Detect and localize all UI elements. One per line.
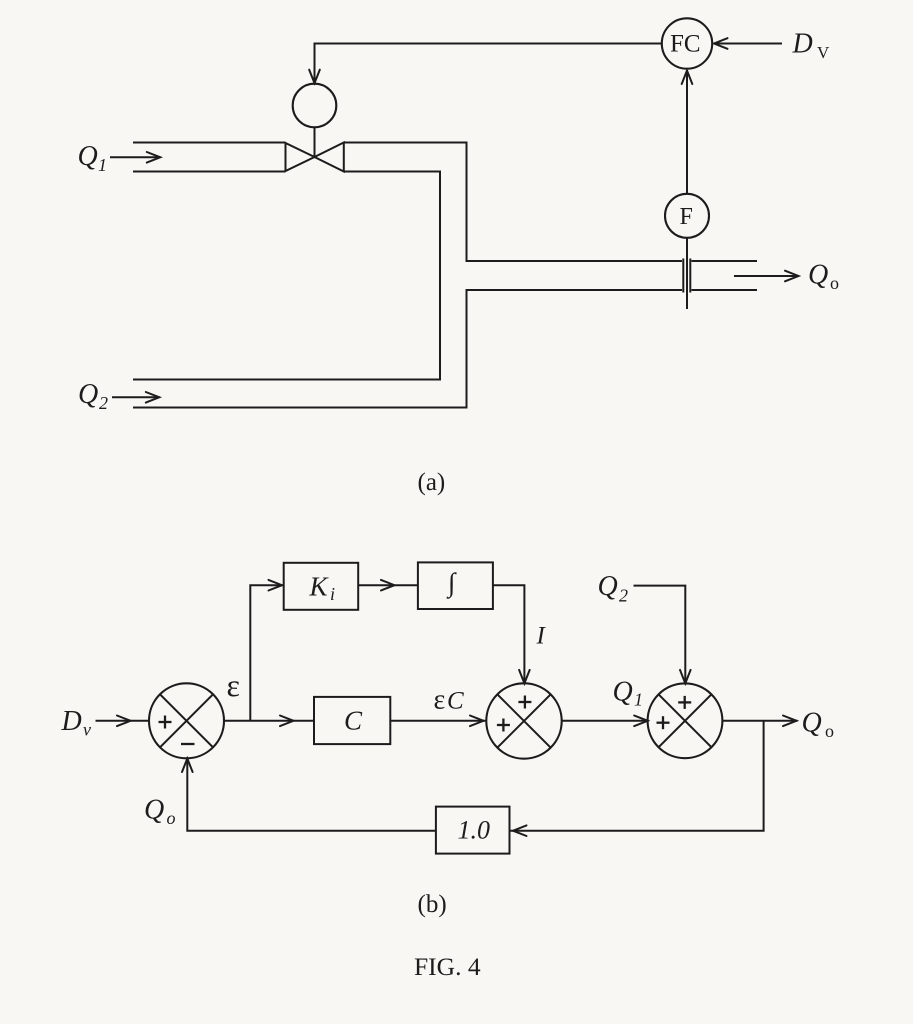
arrowhead into actuator: [309, 70, 320, 84]
pipe lower wall: outlet bottom, down, Q2 bottom: [133, 290, 682, 408]
pipe outlet bottom-right wall: [692, 289, 758, 291]
svg-text:FC: FC: [670, 31, 701, 58]
pipe upper wall: Q1 right, down, outlet top: [344, 143, 682, 262]
wire S3 output to Qo (with branch down): [722, 716, 797, 727]
svg-text:Q: Q: [78, 379, 98, 410]
label Qo (feedback): [144, 795, 176, 829]
S2 plus sign top: [518, 696, 531, 709]
svg-text:Q: Q: [78, 141, 98, 172]
block C: [314, 697, 390, 744]
svg-text:Q: Q: [144, 795, 164, 826]
valve actuator circle: [293, 84, 337, 128]
label Q2 (block diagram): [598, 571, 629, 606]
svg-text:i: i: [330, 584, 335, 604]
valve V1 body: [286, 143, 344, 172]
label Q2 (inlet): [78, 379, 108, 413]
orifice plate bars: [683, 259, 690, 293]
svg-text:o: o: [830, 273, 839, 293]
svg-text:K: K: [309, 572, 330, 602]
svg-text:ε: ε: [227, 667, 240, 703]
wire S1 output to C (with branch node): [224, 716, 314, 727]
flow sensor F circle: [665, 194, 709, 238]
block Ki: [284, 563, 359, 610]
svg-text:F: F: [680, 204, 693, 230]
svg-text:1: 1: [98, 155, 107, 175]
label DV: [792, 29, 831, 63]
pipe Q1 upper-left wall: [133, 142, 286, 144]
label Dv input: [61, 706, 92, 740]
summing junction S1: [149, 683, 224, 758]
wire Q2 down into S3: [634, 586, 691, 684]
summing junction S3: [648, 683, 723, 758]
svg-text:D: D: [61, 706, 82, 737]
S1 plus sign: [159, 716, 172, 729]
arrow Ki to integrator: [358, 580, 418, 591]
S3 plus sign left: [657, 716, 670, 729]
svg-text:ε: ε: [434, 685, 446, 716]
wire 1.0 to S1 (feedback, arrow up): [182, 759, 436, 831]
svg-text:C: C: [447, 688, 464, 715]
svg-text:1.0: 1.0: [458, 816, 491, 845]
block integrator: [418, 562, 493, 609]
wire feedback branch down and left to 1.0: [510, 721, 764, 836]
label epsilon-C: [434, 685, 465, 716]
pipe Q1 lower-left wall: [133, 171, 286, 173]
controller FC circle: [662, 18, 712, 68]
pipe outlet top-right wall: [692, 260, 758, 262]
svg-text:(b): (b): [418, 891, 447, 918]
S3 plus sign top: [678, 696, 691, 709]
label Qo (output): [802, 708, 835, 742]
valve stem: [314, 127, 316, 157]
S2 plus sign left: [497, 719, 510, 732]
svg-text:V: V: [817, 43, 830, 62]
svg-text:2: 2: [99, 393, 108, 413]
label Q1 (inlet): [78, 141, 108, 175]
arrow S2 to S3: [562, 716, 648, 727]
wire branch up to Ki: [250, 580, 283, 721]
wire FC to valve actuator: [315, 44, 662, 81]
svg-text:∫: ∫: [446, 568, 457, 600]
svg-text:D: D: [792, 29, 813, 60]
label Q1 (block diagram): [613, 677, 644, 710]
svg-text:2: 2: [619, 586, 628, 606]
arrow Dv into summer S1: [96, 716, 150, 727]
arrow Dv into FC: [714, 38, 783, 49]
svg-text:I: I: [536, 623, 547, 650]
svg-text:Q: Q: [613, 677, 633, 708]
svg-text:o: o: [825, 721, 834, 741]
block 1.0: [436, 807, 510, 854]
arrow Q2 inlet flow: [112, 392, 159, 403]
svg-text:Q: Q: [808, 260, 828, 291]
svg-text:FIG. 4: FIG. 4: [414, 952, 481, 981]
wire F to orifice: [686, 238, 688, 309]
summing junction S2: [486, 683, 561, 758]
svg-text:o: o: [167, 808, 176, 828]
svg-text:v: v: [83, 720, 91, 740]
arrow C to S2: [390, 716, 486, 727]
label Qo (outlet): [808, 260, 839, 294]
svg-text:Q: Q: [802, 708, 822, 739]
arrow Q1 inlet flow: [110, 152, 160, 163]
pipe inner wall: Q1 bottom right, down, Q2 top: [133, 172, 440, 380]
svg-text:Q: Q: [598, 571, 618, 602]
svg-text:(a): (a): [418, 469, 446, 496]
wire integrator down to S2: [493, 585, 530, 683]
svg-text:C: C: [344, 706, 363, 736]
arrow Qo outlet flow: [734, 271, 799, 282]
svg-text:1: 1: [634, 690, 643, 710]
S1 minus sign: [181, 743, 195, 745]
wire F to FC (arrow up): [682, 71, 693, 194]
